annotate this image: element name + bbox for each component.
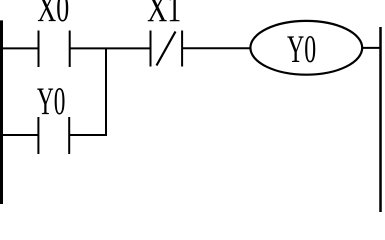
coil Y0 <box>250 21 362 75</box>
wire: branch junction vertical <box>105 48 107 135</box>
right power rail <box>379 27 382 212</box>
wire: left rail to contact Y0 (branch) <box>0 134 38 136</box>
label X1 <box>148 0 180 21</box>
left power rail <box>0 20 3 204</box>
wire: coil Y0 to right rail <box>362 47 381 49</box>
wire: X1 to coil Y0 <box>182 47 250 49</box>
label Y0 (coil) <box>287 36 315 62</box>
contact X0 <box>39 31 70 68</box>
contact Y0 <box>38 117 69 154</box>
wire: contact Y0 to branch junction <box>69 134 107 136</box>
contact X1 (normally closed) <box>151 31 183 67</box>
label X0 <box>38 0 68 22</box>
wire: left rail to contact X0 <box>0 47 39 49</box>
label Y0 (contact) <box>37 88 64 114</box>
wire: X0 to X1 <box>70 47 151 49</box>
